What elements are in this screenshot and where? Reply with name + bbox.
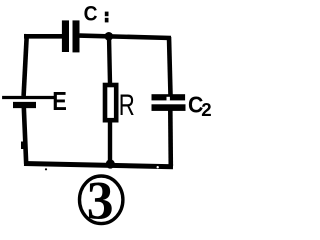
stray ink dot (45, 168, 47, 170)
label C2 (188, 92, 212, 120)
figure number circle (80, 176, 123, 224)
resistor R (105, 85, 116, 120)
battery E long plate (2, 96, 54, 99)
wire right vertical upper (169, 37, 171, 95)
label C1 (84, 3, 109, 26)
node top junction (105, 32, 114, 41)
svg-text:2: 2 (201, 100, 211, 120)
white notch in C2 top plate (167, 97, 170, 101)
node bottom junction (106, 159, 115, 168)
wire bump artifact (21, 142, 24, 150)
capacitor C2 (152, 94, 186, 111)
svg-text:E: E (52, 88, 67, 116)
wire top-left segment (24, 34, 63, 39)
wire R branch upper (109, 36, 110, 84)
wire bottom horizontal (24, 164, 173, 167)
white speckle in bottom wire (157, 166, 159, 168)
battery E short plate (13, 102, 36, 108)
svg-text:3: 3 (87, 170, 114, 230)
wire R branch lower (108, 121, 112, 163)
wire top-right segment (80, 36, 172, 38)
svg-text:R: R (119, 89, 135, 122)
wire right vertical lower (168, 110, 173, 166)
svg-text:C: C (84, 3, 98, 26)
wire left vertical upper (24, 34, 27, 96)
wire left vertical lower (24, 107, 26, 164)
capacitor C1 (62, 20, 80, 52)
